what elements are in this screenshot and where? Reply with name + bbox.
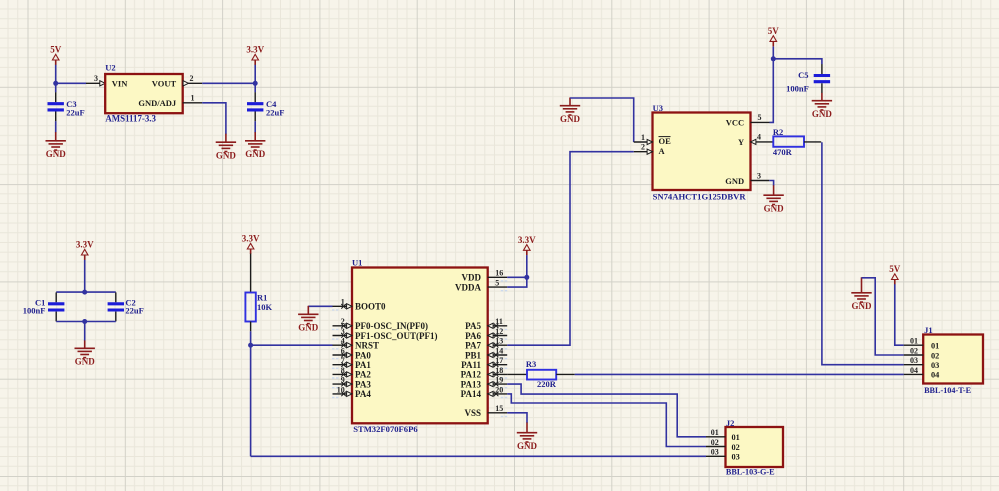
svg-text:16: 16 <box>495 269 503 278</box>
svg-text:GND/ADJ: GND/ADJ <box>138 98 177 108</box>
svg-text:04: 04 <box>931 371 939 380</box>
U3 pin 3 GND <box>751 180 770 182</box>
wire 5V node to C5 <box>773 59 822 64</box>
svg-text:15: 15 <box>495 404 503 413</box>
wire 3.3V to VDD <box>507 255 527 287</box>
regulator U2 pin 3 VIN <box>86 82 105 84</box>
ground GND (U3) <box>763 185 783 204</box>
wire R3 to J1 pin04 <box>575 373 904 375</box>
U3 pin 1 OE <box>634 141 653 143</box>
wire junction to C3 <box>55 83 57 92</box>
svg-text:2: 2 <box>341 317 345 326</box>
svg-text:01: 01 <box>732 433 740 442</box>
svg-text:VOUT: VOUT <box>152 78 177 88</box>
svg-text:GND: GND <box>517 441 538 451</box>
svg-text:01: 01 <box>910 337 918 346</box>
capacitor C2 <box>115 292 117 302</box>
wire top rail C1-C2 <box>56 291 116 293</box>
svg-text:5V: 5V <box>768 26 780 36</box>
R3 right pin <box>556 373 575 375</box>
U1 pin 17 PA11 <box>488 364 508 366</box>
wire VOUT to 3.3V node <box>202 82 255 84</box>
svg-text:J2: J2 <box>726 418 735 428</box>
wire R2 to J1 pin03 <box>822 142 904 365</box>
R2 right pin <box>804 141 821 143</box>
svg-text:4: 4 <box>757 133 761 142</box>
wire junction to VIN pin <box>56 82 86 84</box>
svg-text:5: 5 <box>758 113 762 122</box>
svg-text:20: 20 <box>495 385 503 394</box>
svg-text:3.3V: 3.3V <box>246 45 264 55</box>
J1 pin 01 <box>904 344 924 346</box>
U1 pin 11 PA5 <box>488 325 508 327</box>
svg-text:PB1: PB1 <box>465 350 482 360</box>
svg-text:BOOT0: BOOT0 <box>355 302 386 312</box>
svg-text:GND: GND <box>812 109 833 119</box>
svg-text:03: 03 <box>711 448 719 457</box>
svg-text:100nF: 100nF <box>23 306 46 316</box>
U1 pin 5 VDDA <box>488 286 508 288</box>
svg-text:R1: R1 <box>257 292 267 302</box>
connector J2 body BBL-103-G-E <box>726 427 784 467</box>
wire NRST node to pin <box>251 344 333 346</box>
U1 pin 7 PA1 <box>333 364 353 366</box>
J2 pin 02 <box>706 446 726 448</box>
svg-text:PA14: PA14 <box>461 389 482 399</box>
U3 pin 2 A <box>634 151 653 153</box>
wire 5V to VIN junction <box>55 65 57 84</box>
ground GND (VSS) <box>517 423 537 443</box>
svg-text:02: 02 <box>910 346 918 355</box>
ground GND (U2 ADJ) <box>216 134 236 152</box>
svg-text:3: 3 <box>757 171 761 180</box>
U1 pin 20 PA14 <box>488 393 508 395</box>
svg-text:5V: 5V <box>50 45 62 55</box>
svg-text:22uF: 22uF <box>125 306 143 316</box>
svg-text:17: 17 <box>495 356 503 365</box>
mcu U1 body STM32F070F6P6 <box>352 268 488 424</box>
svg-text:470R: 470R <box>773 147 793 157</box>
capacitor C1 <box>55 292 57 302</box>
svg-text:8: 8 <box>341 366 345 375</box>
wire NRST node down <box>250 345 252 456</box>
svg-text:5V: 5V <box>889 264 901 274</box>
J1 pin 04 <box>904 373 924 375</box>
svg-text:1: 1 <box>641 133 645 142</box>
svg-text:1: 1 <box>341 298 345 307</box>
resistor R2 <box>773 136 804 146</box>
wire PA14 to J2 pin02 <box>507 394 706 447</box>
R3 left pin <box>507 373 527 375</box>
svg-text:PA1: PA1 <box>355 360 371 370</box>
svg-text:18: 18 <box>495 366 503 375</box>
U3 pin 4 Y <box>751 141 774 143</box>
wire C3 to GND <box>55 121 57 132</box>
node junction 5V/C5 <box>771 56 776 61</box>
svg-text:GND: GND <box>46 149 67 159</box>
svg-text:22uF: 22uF <box>266 107 284 117</box>
svg-text:220R: 220R <box>537 379 557 389</box>
svg-text:R2: R2 <box>773 127 783 137</box>
svg-text:100nF: 100nF <box>786 83 809 93</box>
svg-text:10K: 10K <box>257 302 273 312</box>
svg-text:PA0: PA0 <box>355 350 371 360</box>
svg-text:1: 1 <box>191 94 195 103</box>
svg-text:J1: J1 <box>924 325 933 335</box>
svg-text:3.3V: 3.3V <box>518 235 536 245</box>
R1 top pin <box>250 254 252 293</box>
J2 pin 03 <box>706 455 726 457</box>
node junction top rail <box>82 290 87 295</box>
ground GND (BOOT0) <box>298 306 318 324</box>
svg-text:PF1-OSC_OUT(PF1): PF1-OSC_OUT(PF1) <box>355 331 438 341</box>
node junction VOUT/C4 <box>253 81 258 86</box>
wire 5V to J1 pin01 <box>895 284 904 345</box>
wire VSS to GND <box>507 413 527 423</box>
svg-text:10: 10 <box>337 385 345 394</box>
svg-text:4: 4 <box>341 337 345 346</box>
svg-text:9: 9 <box>341 376 345 385</box>
svg-text:AMS1117-3.3: AMS1117-3.3 <box>105 113 156 123</box>
resistor R3 <box>527 370 556 380</box>
svg-text:03: 03 <box>732 453 740 462</box>
svg-text:3: 3 <box>341 327 345 336</box>
buffer U3 body SN74AHCT1G125DBVR <box>653 113 751 191</box>
U2 pin 1 GND/ADJ <box>183 102 203 104</box>
wire U3 GND pin to GND <box>769 181 773 186</box>
U1 pin 19 PA13 <box>488 383 508 385</box>
U1 pin 14 PB1 <box>488 354 508 356</box>
ground GND (C3) <box>46 132 66 150</box>
svg-text:A: A <box>659 146 666 156</box>
U1 pin 1 BOOT0 <box>333 305 353 307</box>
svg-text:2: 2 <box>641 143 645 152</box>
ground GND (C1/C2) <box>75 340 95 357</box>
svg-text:C5: C5 <box>798 70 808 80</box>
node junction VDD <box>524 275 529 280</box>
svg-text:11: 11 <box>495 317 503 326</box>
svg-text:U1: U1 <box>352 258 362 268</box>
svg-text:PA3: PA3 <box>355 379 371 389</box>
J1 pin 02 <box>904 354 924 356</box>
U1 pin 3 PF1-OSC_OUT(PF1) <box>333 335 353 337</box>
svg-text:12: 12 <box>495 327 503 336</box>
svg-text:3.3V: 3.3V <box>242 234 260 244</box>
svg-text:02: 02 <box>931 351 939 360</box>
wire bottom rail C1-C2 <box>56 321 116 323</box>
svg-text:GND: GND <box>852 301 873 311</box>
wire 3.3V down to caps <box>84 260 86 292</box>
connector J1 body BBL-104-T-E <box>923 335 983 384</box>
svg-text:PA6: PA6 <box>465 331 481 341</box>
svg-text:U2: U2 <box>105 63 115 73</box>
svg-text:5: 5 <box>495 279 499 288</box>
wire 5V down to VCC <box>770 47 774 123</box>
wire VDD pin to vertical <box>507 276 527 278</box>
wire PA13 to J2 pin01 <box>507 384 706 437</box>
svg-text:PF0-OSC_IN(PF0): PF0-OSC_IN(PF0) <box>355 321 428 331</box>
node junction NRST <box>248 343 253 348</box>
svg-text:R3: R3 <box>526 359 536 369</box>
wire GND to J1 pin02 <box>862 278 904 355</box>
svg-text:GND: GND <box>764 204 785 214</box>
U1 pin 18 PA12 <box>488 373 508 375</box>
svg-text:PA7: PA7 <box>465 341 481 351</box>
resistor R1 <box>245 293 255 322</box>
svg-text:14: 14 <box>495 346 503 355</box>
svg-text:U3: U3 <box>653 103 663 113</box>
svg-text:3: 3 <box>94 74 98 83</box>
capacitor C3 <box>55 92 57 102</box>
ground GND (C5) <box>812 93 832 110</box>
wire 3.3V port down <box>254 65 256 84</box>
svg-text:PA4: PA4 <box>355 389 371 399</box>
svg-text:02: 02 <box>711 438 719 447</box>
svg-text:VIN: VIN <box>112 78 128 88</box>
R1 bottom pin <box>250 322 252 332</box>
svg-text:13: 13 <box>495 337 503 346</box>
svg-text:PA13: PA13 <box>461 379 482 389</box>
op-amp U2 body AMS1117-3.3 <box>105 74 183 113</box>
U1 pin 10 PA4 <box>333 393 353 395</box>
svg-text:SN74AHCT1G125DBVR: SN74AHCT1G125DBVR <box>653 192 747 202</box>
wire C4 to GND <box>254 121 256 132</box>
svg-text:03: 03 <box>910 356 918 365</box>
wire A net to PA7 <box>507 152 634 346</box>
U1 pin 4 NRST <box>333 344 353 346</box>
wire bottom rail to GND <box>84 322 86 341</box>
svg-text:GND: GND <box>298 323 319 333</box>
svg-text:2: 2 <box>190 74 194 83</box>
node junction 5V/C3/VIN <box>53 81 58 86</box>
svg-text:01: 01 <box>711 428 719 437</box>
svg-text:GND: GND <box>245 149 266 159</box>
svg-text:PA11: PA11 <box>461 360 481 370</box>
U1 pin 8 PA2 <box>333 373 353 375</box>
svg-text:VDDA: VDDA <box>455 282 481 292</box>
svg-text:01: 01 <box>931 342 939 351</box>
svg-text:PA12: PA12 <box>461 370 482 380</box>
svg-text:7: 7 <box>341 356 345 365</box>
U1 pin 2 PF0-OSC_IN(PF0) <box>333 325 353 327</box>
svg-text:GND: GND <box>725 176 744 186</box>
wire NRST to J2 pin03 <box>251 455 706 457</box>
wire junction to C4 <box>254 83 256 92</box>
svg-text:BBL-103-G-E: BBL-103-G-E <box>726 467 775 476</box>
U1 pin 16 VDD <box>488 276 508 278</box>
U1 pin 15 VSS <box>488 412 508 414</box>
svg-text:6: 6 <box>341 346 345 355</box>
svg-text:OE: OE <box>659 136 672 146</box>
capacitor C4 <box>254 92 256 102</box>
U1 pin 12 PA6 <box>488 335 508 337</box>
svg-text:19: 19 <box>495 376 503 385</box>
J2 pin 01 <box>706 436 726 438</box>
U1 pin 9 PA3 <box>333 383 353 385</box>
svg-text:NRST: NRST <box>355 341 379 351</box>
ground GND (J1) <box>851 277 871 302</box>
svg-text:04: 04 <box>910 366 918 375</box>
svg-text:VSS: VSS <box>464 408 481 418</box>
wire GND/ADJ to GND <box>202 103 226 134</box>
wire GND to OE pin <box>570 98 634 142</box>
svg-text:PA2: PA2 <box>355 370 371 380</box>
svg-text:VDD: VDD <box>462 273 482 283</box>
U1 pin 13 PA7 <box>488 344 508 346</box>
U3 pin 5 VCC <box>751 121 770 123</box>
svg-text:GND: GND <box>75 357 96 367</box>
svg-text:GND: GND <box>560 114 581 124</box>
wire BOOT0 to GND <box>308 305 332 307</box>
svg-text:3.3V: 3.3V <box>76 240 94 250</box>
U1 pin 6 PA0 <box>333 354 353 356</box>
ground GND (OE) <box>560 98 580 116</box>
svg-text:03: 03 <box>931 361 939 370</box>
svg-text:STM32F070F6P6: STM32F070F6P6 <box>353 424 418 434</box>
svg-text:22uF: 22uF <box>66 107 84 117</box>
svg-text:PA5: PA5 <box>465 321 481 331</box>
ground GND (C4) <box>245 132 265 150</box>
svg-text:GND: GND <box>216 151 237 161</box>
J1 pin 03 <box>904 364 924 366</box>
capacitor C5 <box>821 64 823 74</box>
U2 pin 2 VOUT <box>183 82 203 84</box>
svg-text:BBL-104-T-E: BBL-104-T-E <box>924 386 972 395</box>
wire R1 to NRST node <box>250 331 252 345</box>
svg-text:Y: Y <box>738 137 744 147</box>
svg-text:02: 02 <box>732 443 740 452</box>
node junction bottom rail <box>82 319 87 324</box>
svg-text:VCC: VCC <box>726 118 744 128</box>
